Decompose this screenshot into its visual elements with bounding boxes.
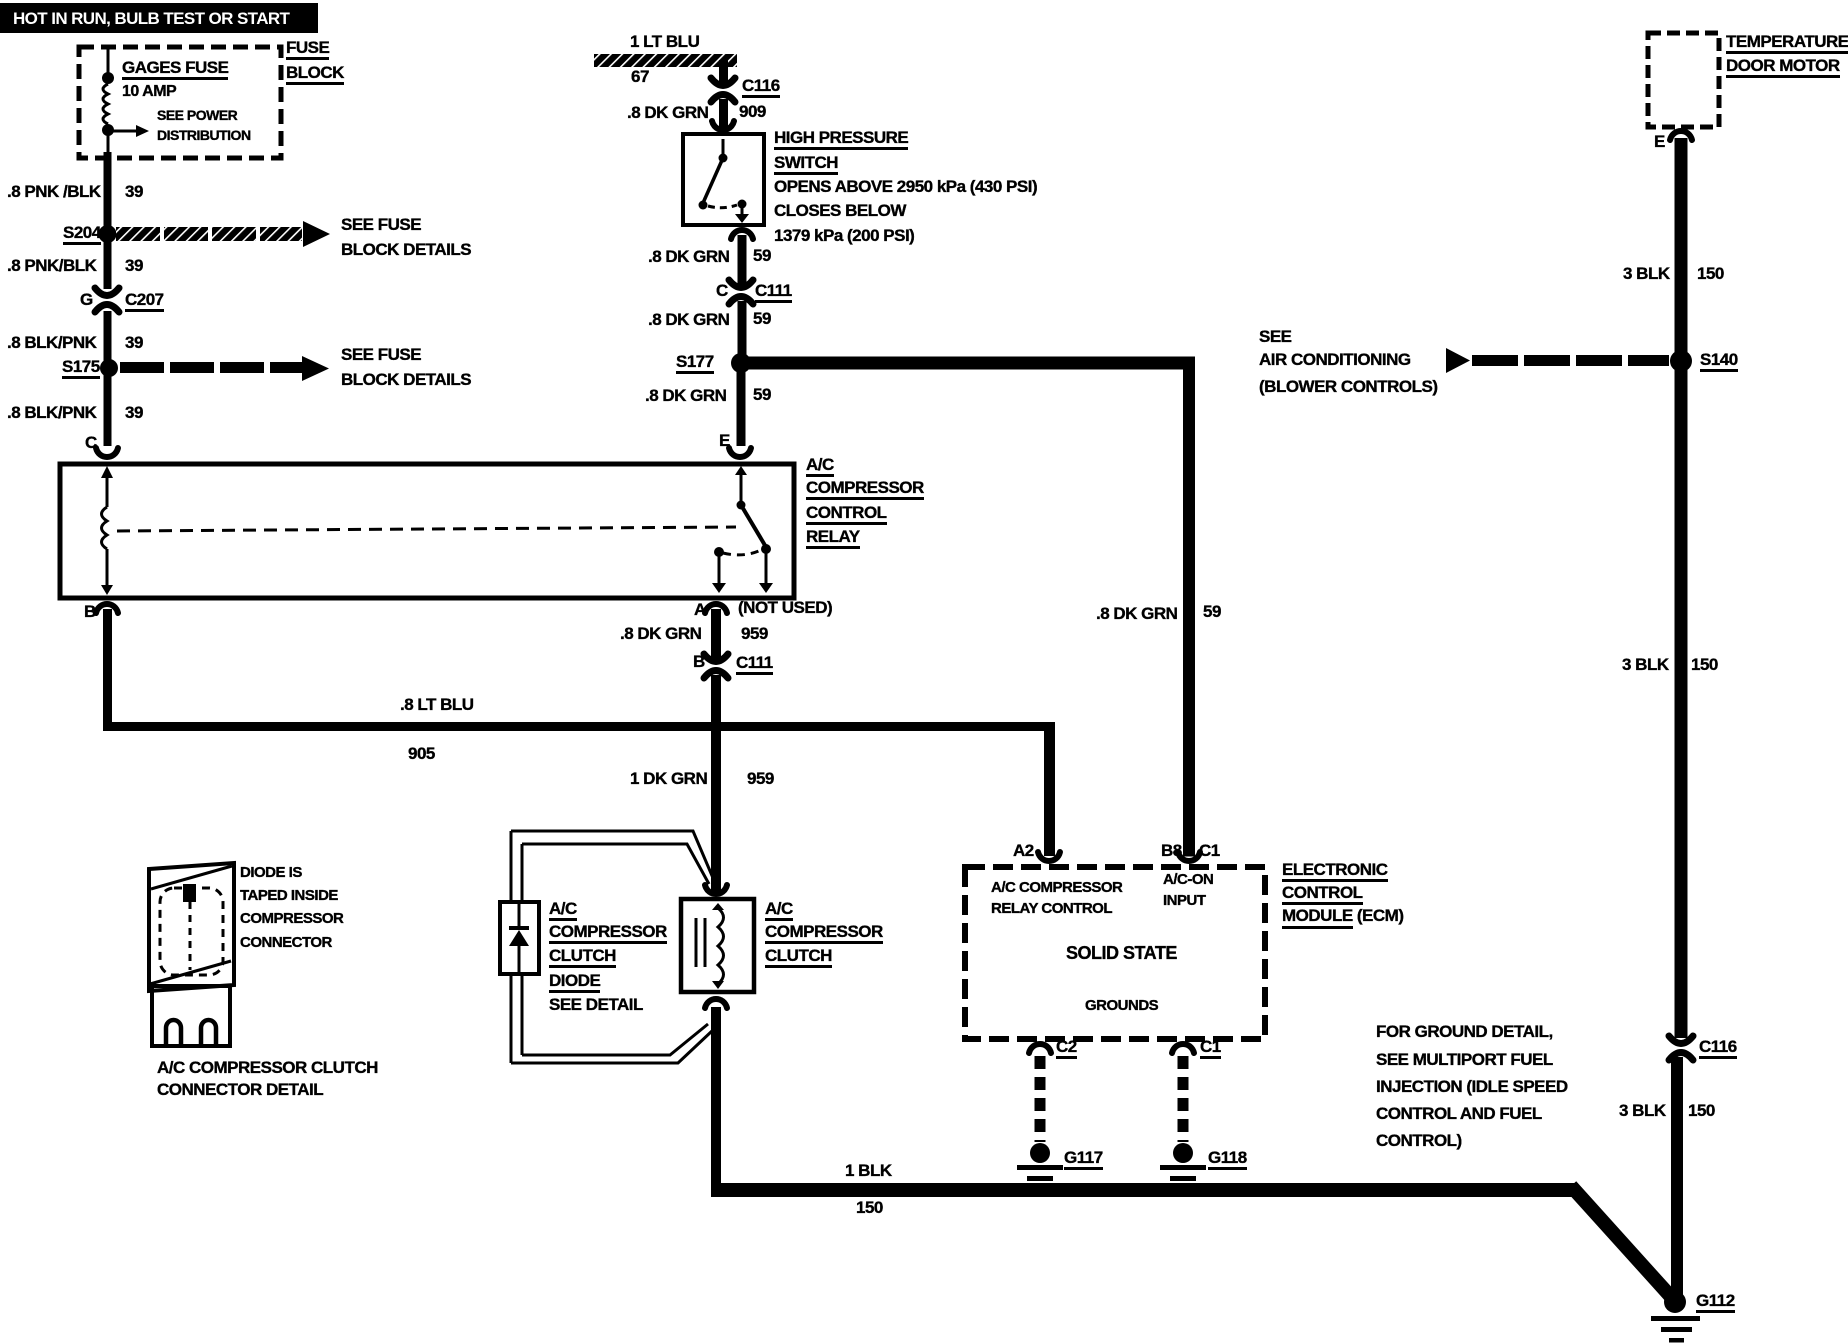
relay pin C — [96, 448, 118, 457]
label A/C — [765, 900, 793, 921]
label 59 — [753, 310, 771, 327]
label .8 DK GRN — [627, 104, 708, 121]
clutch pin bottom — [705, 999, 727, 1008]
ECM pin C2 — [1029, 1044, 1051, 1053]
connector detail upper body — [149, 863, 234, 991]
label SEE — [1259, 328, 1292, 345]
label CLUTCH — [765, 947, 832, 968]
label A2 — [1013, 842, 1034, 859]
label 959 — [747, 770, 774, 787]
label COMPRESSOR — [765, 923, 883, 944]
label 3 BLK — [1622, 656, 1669, 673]
label INJECTION (IDLE SPEED — [1376, 1078, 1568, 1095]
wire motor-to-S140 (3 BLK 150) — [1675, 138, 1688, 361]
label 150 — [1697, 265, 1724, 282]
label 1 LT BLU — [630, 33, 699, 50]
label .8 DK GRN — [648, 311, 729, 328]
relay pin A — [705, 604, 727, 613]
label .8 DK GRN — [620, 625, 701, 642]
wire up to ECM A2 — [1044, 722, 1055, 856]
wire C111-to-clutch (1 DK GRN 959) — [711, 675, 721, 891]
label .8 LT BLU — [400, 696, 474, 713]
label 1379 kPa (200 PSI) — [774, 227, 914, 244]
temperature door motor dashed box — [1648, 33, 1719, 127]
ECM dashed box — [965, 867, 1265, 1039]
wire S140 dashed to blower controls — [1446, 348, 1669, 373]
label DOOR MOTOR — [1726, 57, 1840, 78]
wire S140-to-C116 (3 BLK 150) — [1675, 361, 1688, 1038]
label B — [84, 603, 96, 620]
label INPUT — [1163, 892, 1206, 909]
wire S177 horizontal to ECM B8 (.8 DK GRN 59) — [741, 357, 1195, 857]
label DIODE IS — [240, 864, 302, 881]
label A/C — [806, 456, 834, 477]
ground G112 — [1651, 1291, 1700, 1343]
label A — [694, 601, 706, 618]
ECM pin B8 — [1178, 852, 1200, 861]
wire diode loop left — [511, 831, 522, 1063]
label COMPRESSOR — [806, 479, 924, 500]
wire ECM C1-to-G118 (dashed) — [1178, 1056, 1189, 1142]
label RELAY CONTROL — [991, 900, 1112, 917]
connector C116 (top) — [711, 78, 735, 102]
label .8 DK GRN — [645, 387, 726, 404]
relay mechanical link (dashed) — [117, 527, 736, 531]
wire C207-to-S175 (.8 BLK/PNK 39) — [104, 311, 112, 363]
wire fuse-to-box-bottom — [107, 130, 110, 154]
label G — [80, 291, 93, 308]
switch pin in — [712, 121, 734, 130]
relay K1 A/C compressor control relay box — [60, 464, 794, 598]
label RELAY — [806, 528, 860, 549]
label E — [1654, 133, 1665, 150]
label TEMPERATURE — [1726, 33, 1848, 54]
label SWITCH — [774, 154, 838, 175]
label G118 — [1208, 1149, 1247, 1170]
label SEE FUSE — [341, 346, 421, 363]
label .8 PNK /BLK — [7, 183, 101, 200]
label SEE MULTIPORT FUEL — [1376, 1051, 1553, 1068]
label OPENS ABOVE 2950 kPa (430 PSI) — [774, 178, 1037, 195]
label C207 — [125, 291, 164, 312]
label SEE DETAIL — [549, 996, 643, 1013]
connector C111 (lower) — [704, 654, 728, 678]
clutch pin top — [705, 885, 727, 894]
wire diagonal to G112 — [1571, 1186, 1672, 1298]
wire .8 LT BLU 905 horizontal — [103, 722, 1055, 731]
wire diode loop bottom — [511, 1024, 712, 1063]
wire S204-to-C207 (.8 PNK/BLK 39) — [104, 240, 112, 289]
label 909 — [739, 103, 766, 120]
label BLOCK DETAILS — [341, 241, 471, 258]
label B — [693, 653, 705, 670]
label (NOT USED) — [738, 599, 832, 616]
connector detail taped diode (dashed) — [160, 884, 223, 975]
label 959 — [741, 625, 768, 642]
label GROUNDS — [1085, 997, 1158, 1014]
label 150 — [856, 1199, 883, 1216]
clutch plates — [695, 918, 707, 967]
label 39 — [125, 404, 143, 421]
connector C111 (upper) — [729, 280, 753, 304]
wire 1 BLK 150 horizontal — [711, 1183, 1578, 1197]
wire diode loop top — [511, 831, 713, 884]
splice S204 — [99, 225, 117, 243]
high pressure switch box — [683, 134, 764, 225]
label S140 — [1700, 351, 1738, 372]
label G112 — [1696, 1292, 1735, 1313]
ground G118 — [1160, 1143, 1206, 1181]
wire relay B down (.8 LT BLU) — [103, 609, 112, 731]
label ELECTRONIC — [1282, 861, 1388, 882]
relay switch contacts — [712, 466, 773, 593]
label 3 BLK — [1623, 265, 1670, 282]
connector C116 (lower) — [1669, 1036, 1693, 1060]
label A/C COMPRESSOR — [991, 879, 1122, 896]
wire switch-to-C111 (.8 DK GRN 59) — [738, 235, 747, 285]
label 59 — [753, 386, 771, 403]
label S177 — [676, 353, 714, 374]
wire S204 arrow to fuse block details — [116, 221, 330, 247]
relay coil — [101, 466, 113, 595]
label COMPRESSOR — [240, 910, 343, 927]
label 905 — [408, 745, 435, 762]
label 10 AMP — [122, 83, 176, 100]
label 39 — [125, 334, 143, 351]
label 39 — [125, 183, 143, 200]
label 1 BLK — [845, 1162, 892, 1179]
label C2 — [1056, 1038, 1077, 1059]
wire C111-to-S177 (.8 DK GRN 59) — [738, 301, 747, 363]
wire C116-to-G112 (3 BLK 150) — [1671, 1057, 1683, 1298]
label 150 — [1691, 656, 1718, 673]
label .8 BLK/PNK — [7, 334, 96, 351]
label TAPED INSIDE — [240, 887, 338, 904]
wire S175 arrow to fuse block details — [120, 356, 329, 381]
label SEE FUSE — [341, 216, 421, 233]
label CLUTCH — [549, 947, 616, 968]
label .8 DK GRN — [1096, 605, 1177, 622]
label 150 — [1688, 1102, 1715, 1119]
splice S140 — [1670, 350, 1692, 372]
A/C compressor clutch box — [681, 899, 754, 992]
label G117 — [1064, 1149, 1103, 1170]
label C — [85, 434, 97, 451]
label BLOCK DETAILS — [341, 371, 471, 388]
label AIR CONDITIONING — [1259, 351, 1411, 368]
splice S177 — [731, 353, 751, 373]
label B8 — [1161, 842, 1182, 859]
label C — [716, 282, 728, 299]
label CONTROL) — [1376, 1132, 1462, 1149]
wire S177-to-relay pin E (.8 DK GRN 59) — [737, 363, 746, 446]
connector detail lower body — [152, 986, 230, 1046]
label 3 BLK — [1619, 1102, 1666, 1119]
wire 1 LT BLU 67 (hatched) — [594, 54, 737, 84]
ECM pin C1 — [1172, 1044, 1194, 1053]
wire C116-to-switch (.8 DK GRN 909) — [719, 99, 728, 135]
label 67 — [631, 68, 649, 85]
diode D1 A/C compressor clutch diode box — [500, 902, 539, 974]
label A/C COMPRESSOR CLUTCH — [157, 1059, 378, 1076]
fuse F1 GAGES FUSE 10 AMP — [102, 72, 114, 136]
label C111 — [755, 282, 792, 303]
label E — [719, 432, 730, 449]
label CONTROL — [806, 504, 887, 525]
wire S175-to-relay pin C (.8 BLK/PNK 39) — [104, 374, 112, 446]
label S204 — [63, 224, 101, 245]
relay pin E — [729, 448, 751, 457]
label SOLID STATE — [1066, 945, 1177, 962]
wire fuse-to-S204 (.8 PNK/BLK 39) — [104, 152, 112, 232]
label 59 — [1203, 603, 1221, 620]
label CONTROL AND FUEL — [1376, 1105, 1542, 1122]
label C116 — [1699, 1038, 1737, 1059]
label (BLOWER CONTROLS) — [1259, 378, 1437, 395]
label BLOCK — [286, 64, 344, 85]
diode D1 symbol — [509, 904, 529, 972]
label C111 — [736, 654, 773, 675]
label CONNECTOR DETAIL — [157, 1081, 323, 1098]
label A/C-ON — [1163, 871, 1213, 888]
label 59 — [753, 247, 771, 264]
label .8 DK GRN — [648, 248, 729, 265]
label CONNECTOR — [240, 934, 332, 951]
wire relay A-to-C111 (.8 DK GRN 959) — [711, 609, 721, 658]
label C1 — [1199, 842, 1220, 859]
label GAGES FUSE — [122, 59, 228, 80]
label CONTROL — [1282, 884, 1363, 905]
label .8 PNK/BLK — [7, 257, 96, 274]
label S175 — [62, 358, 100, 379]
label 1 DK GRN — [630, 770, 707, 787]
wire clutch-to-corner (1 BLK 150) — [711, 1007, 721, 1197]
wire ECM C2-to-G117 (dashed) — [1035, 1056, 1046, 1142]
motor pin E — [1670, 131, 1692, 140]
label .8 BLK/PNK — [7, 404, 96, 421]
label MODULE (ECM) — [1282, 907, 1404, 924]
connector C207 — [95, 288, 119, 312]
switch pin out — [731, 230, 753, 239]
high pressure switch contacts — [699, 139, 750, 223]
label DIODE — [549, 972, 600, 993]
splice S175 — [100, 359, 118, 377]
wire into fuse — [107, 47, 110, 78]
banner text HOT IN RUN — [13, 9, 289, 29]
label DISTRIBUTION — [157, 127, 251, 144]
label SEE POWER — [157, 107, 237, 124]
label HIGH PRESSURE — [774, 129, 908, 150]
label FUSE — [286, 39, 329, 60]
label 39 — [125, 257, 143, 274]
label CLOSES BELOW — [774, 202, 906, 219]
relay pin B — [96, 604, 118, 613]
fuse block dashed box — [79, 47, 281, 158]
ECM pin A2 — [1038, 852, 1060, 861]
label C1 — [1200, 1038, 1221, 1059]
label C116 — [742, 77, 780, 98]
banner HOT IN RUN — [0, 3, 318, 33]
ground G117 — [1017, 1143, 1063, 1181]
arrow see power distribution — [108, 125, 149, 137]
label A/C — [549, 900, 577, 921]
label FOR GROUND DETAIL, — [1376, 1023, 1553, 1040]
label COMPRESSOR — [549, 923, 667, 944]
clutch coil — [712, 903, 724, 989]
